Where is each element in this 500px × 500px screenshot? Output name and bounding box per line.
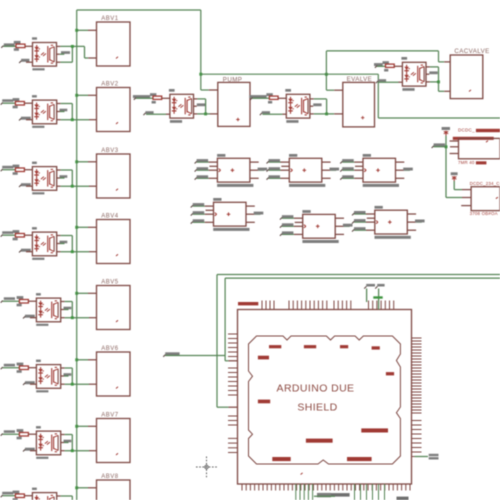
wire [24, 234, 32, 236]
resistor (ABV2 series) [13, 98, 25, 108]
junction (bus tap) [75, 94, 78, 97]
net label (ABV8 control) [1, 492, 16, 497]
wire [65, 368, 97, 384]
pad bar 4 (shield) [372, 346, 380, 349]
wire [162, 97, 170, 99]
wire (to EVALVE pin 1) [326, 89, 342, 91]
pin wires (opto outputs) [61, 368, 72, 384]
junction [437, 80, 440, 83]
pin wire (J3 left 4) [340, 175, 363, 179]
pin wire (J2 left 2) [281, 165, 289, 167]
pin wire (J6 left 3) [352, 219, 375, 223]
net label (ABV3 drive low side) [19, 183, 32, 187]
pin wire (J4 right 3) [246, 221, 255, 223]
wire [325, 51, 327, 90]
text ARDUINO DUE [277, 383, 355, 395]
junction [204, 112, 207, 115]
net label (ABV6 drive low side) [23, 381, 36, 385]
pad bar 2 (shield) [304, 345, 316, 348]
net label (ABV7 control) [1, 430, 20, 435]
pin wire (J6 left 1) [352, 211, 375, 215]
net label (ABV5 control) [1, 297, 20, 302]
wire [454, 181, 471, 190]
pin wire (J6 right 1) [407, 213, 416, 215]
wire [445, 136, 447, 198]
resistor (CACVALVE series) [383, 61, 395, 71]
wire [61, 236, 97, 252]
optocoupler (ABV5 driver) [36, 293, 61, 326]
wire [24, 169, 32, 171]
wire [77, 292, 97, 294]
pin wire (DCDC2 left 3) [461, 205, 471, 207]
junction (bus tap) [75, 226, 78, 229]
svg-text:7MR 40: 7MR 40 [458, 160, 475, 165]
pad bar 1 (shield) [269, 345, 281, 348]
wire [61, 104, 97, 120]
junction (bus tap) [75, 29, 78, 32]
pin wire (J1 right 2) [250, 168, 267, 171]
connector block J3 [363, 154, 399, 187]
net label (shield right stub) [412, 454, 439, 460]
wire [326, 50, 438, 52]
pin wires (opto outputs) [57, 170, 68, 186]
junction [199, 73, 202, 76]
shield inner footprint outline [249, 336, 401, 464]
wire (to PUMP pin 2) [206, 113, 218, 115]
wire [225, 278, 237, 361]
pin wire (J6 left 2) [367, 217, 375, 219]
pin wire (J3 right 1) [396, 161, 405, 163]
connector block J4 [213, 198, 249, 231]
junction [71, 185, 74, 188]
optocoupler (ABV7 driver) [36, 426, 61, 459]
wire [65, 435, 97, 451]
origin crosshair [196, 457, 217, 478]
converter DCDC1 [453, 128, 500, 166]
pad bar 5 (shield) [258, 356, 269, 360]
pin wires (shield bottom) [242, 484, 410, 491]
wire [439, 51, 451, 62]
pad bar 3 (shield) [340, 345, 348, 348]
net label (CACVALVE control) [374, 63, 386, 68]
optocoupler (ABV1 driver) [32, 37, 57, 70]
net label (ABV2 control) [1, 99, 16, 104]
pin wires (opto outputs) [426, 67, 438, 82]
net label (shield top stub A) [364, 284, 375, 302]
net label (ABV1 drive low side) [19, 59, 32, 63]
svg-text:DCDC_234_CC: DCDC_234_CC [470, 181, 500, 186]
wire [24, 495, 32, 497]
pin wire (J2 left 4) [267, 175, 290, 179]
pin wire (J1 right 1) [250, 161, 259, 163]
wires (shield bottom nets B) [355, 484, 385, 500]
valve block ABV3 [97, 148, 131, 198]
pin wires (opto outputs) [57, 496, 68, 500]
pin wires (shield left) [228, 334, 238, 453]
pin wire (J5 left 3) [280, 223, 303, 227]
junction [71, 383, 74, 386]
wire (to EVALVE pin 2) [327, 113, 343, 115]
pin wire (J6 right 2) [407, 220, 424, 223]
supply symbol (+V for DCDC2) [451, 172, 458, 181]
wire [61, 170, 97, 186]
resistor (PUMP series) [150, 93, 162, 103]
svg-text:ABV3: ABV3 [101, 148, 119, 154]
bar (top-left pad) [238, 302, 258, 305]
valve block ABV7 [97, 412, 131, 462]
pin wire (J3 right 2) [396, 168, 413, 171]
pin wire (J5 right 3) [335, 233, 344, 235]
junction [71, 250, 74, 253]
valve block ABV1 [97, 16, 131, 66]
pin wire (J5 left 4) [280, 231, 303, 235]
wire (left vertical bus) [76, 10, 78, 500]
optocoupler (ABV3 driver) [32, 162, 57, 195]
wire [217, 275, 238, 408]
net label (CACVALVE drive low side) [376, 79, 403, 83]
pad bar 6 (shield) [386, 372, 394, 375]
svg-text:DCDC_: DCDC_ [458, 128, 475, 133]
junction [71, 118, 74, 121]
pin wire (J2 right 1) [322, 161, 331, 163]
net label (ABV1 control) [1, 43, 16, 47]
wire (inner rail to shield) [225, 277, 500, 279]
connector block J5 [302, 210, 338, 243]
optocoupler (ABV6 driver) [36, 360, 61, 393]
valve block EVALVE [343, 76, 375, 127]
optocoupler (CACVALVE driver) [401, 57, 426, 91]
svg-text:ABV6: ABV6 [101, 346, 119, 352]
svg-text:SHIELD: SHIELD [297, 402, 337, 414]
junction [71, 449, 74, 452]
wire [85, 46, 97, 58]
wire [377, 74, 379, 118]
pin wires (shield top) [262, 301, 394, 310]
optocoupler (ABV8 driver) [32, 488, 57, 500]
net label (ABV6 control) [1, 364, 20, 369]
wire [201, 73, 378, 75]
junction (bus tap) [75, 292, 78, 295]
pin wires (opto outputs) [194, 99, 206, 114]
resistor (ABV6 series) [17, 363, 29, 373]
svg-text:ABV7: ABV7 [101, 412, 119, 418]
pin wire (J4 left 2) [206, 209, 214, 211]
pin wire (J4 right 2) [246, 212, 263, 215]
net label (shield top stub B) [375, 284, 384, 310]
net label (ABV2 drive low side) [19, 117, 32, 121]
wire (top rail) [77, 9, 201, 11]
junction [325, 73, 328, 76]
valve block ABV5 [97, 279, 131, 329]
svg-text:ABV4: ABV4 [101, 213, 119, 219]
wire [77, 226, 97, 228]
svg-text:EVALVE: EVALVE [347, 76, 373, 83]
pad bar 7 (shield) [258, 400, 270, 404]
net label (+24V rail) [432, 143, 446, 148]
wire [430, 67, 439, 82]
wire (to CACVALVE pin 2) [439, 82, 451, 91]
resistor (ABV1 series) [14, 41, 25, 51]
optocoupler (ABV4 driver) [32, 227, 57, 260]
pin wire (J6 left 4) [352, 227, 375, 231]
svg-text:CACVALVE: CACVALVE [454, 48, 489, 55]
wires (shield bottom nets A) [296, 484, 313, 500]
pin wire (J2 right 2) [322, 168, 339, 171]
junction [71, 45, 74, 48]
pin wires (shield right, dense) [412, 338, 422, 413]
resistor (ABV7 series) [17, 429, 29, 439]
pin wire (J1 left 1) [195, 159, 218, 163]
pin wire (J3 left 2) [355, 165, 363, 167]
pin wires (opto outputs) [310, 99, 322, 114]
net label (ABV7 drive low side) [23, 448, 36, 452]
pin wire (J5 left 1) [280, 215, 303, 219]
resistor (EVALVE series) [266, 93, 278, 103]
pin wire (J2 left 1) [267, 159, 290, 163]
wire [394, 65, 402, 67]
wire [24, 102, 32, 104]
pin wires (opto outputs) [57, 104, 68, 120]
net label (ABV4 control) [1, 231, 16, 236]
marker (shield origin) [301, 473, 303, 475]
wire [77, 487, 97, 489]
pin wires (opto outputs) [57, 236, 68, 252]
wire [65, 302, 97, 318]
valve block PUMP [218, 76, 250, 126]
valve block ABV2 [97, 81, 131, 131]
pin wire (J3 left 3) [340, 167, 363, 171]
resistor (ABV8 series) [13, 491, 25, 500]
pin wires (opto outputs) [57, 46, 71, 62]
svg-text:ABV5: ABV5 [101, 279, 119, 285]
wire [446, 197, 471, 199]
pin wire (J1 left 3) [195, 167, 218, 171]
junction (bus tap) [75, 486, 78, 489]
wire [378, 117, 500, 119]
svg-text:3708 OB#OA: 3708 OB#OA [470, 211, 498, 216]
wire [77, 425, 97, 427]
optocoupler (ABV2 driver) [32, 95, 57, 128]
resistor (ABV4 series) [13, 230, 25, 240]
resistor (ABV3 series) [13, 165, 25, 175]
net label (shield bottom A) [314, 493, 350, 497]
pin wire (J2 left 3) [267, 167, 290, 171]
connector block J2 [289, 154, 325, 187]
wire [77, 29, 97, 31]
junction [445, 145, 448, 148]
valve block ABV6 [97, 346, 131, 396]
pin wire (J1 left 2) [209, 165, 217, 167]
svg-text:PUMP: PUMP [223, 76, 242, 83]
wire [61, 496, 97, 500]
supply bar (shield top) [373, 296, 382, 298]
svg-text:ABV1: ABV1 [101, 16, 119, 22]
valve block ABV8 [97, 474, 131, 500]
pad bar 11 (shield) [347, 457, 372, 461]
pin wire (J4 left 3) [191, 211, 214, 215]
wire [197, 99, 205, 114]
junction [71, 316, 74, 319]
pin wire (J5 right 2) [335, 224, 352, 227]
connector block J1 [217, 154, 253, 187]
net label (EVALVE control) [249, 95, 269, 100]
pad bar 10 (shield) [272, 457, 290, 461]
wire (to PUMP pin 1) [201, 89, 218, 91]
pin wires (opto outputs) [61, 302, 72, 318]
junction (bus tap) [75, 425, 78, 428]
junction [325, 112, 328, 115]
pin wire (J4 left 1) [191, 203, 214, 207]
net label (shield bottom B) [397, 497, 409, 500]
wire (outer rail to shield) [217, 274, 500, 276]
pin wire (J5 right 1) [335, 217, 344, 219]
pin wires (opto outputs) [61, 435, 72, 451]
net label (PUMP control) [133, 95, 153, 100]
net label (ABV3 control) [1, 166, 16, 171]
wire [28, 300, 36, 302]
wire [25, 45, 33, 47]
supply symbol (+V for DCDC1) [442, 127, 450, 136]
connector block J6 [375, 206, 411, 239]
wire [77, 161, 97, 163]
pin wire (J2 right 3) [322, 177, 331, 179]
pin wire (J5 left 2) [295, 221, 303, 223]
wire [200, 10, 202, 90]
shield module ARDUINO DUE SHIELD (outer outline) [238, 310, 412, 485]
pin wire (J4 right 1) [246, 205, 255, 207]
pin wire (J6 right 3) [407, 229, 416, 231]
svg-text:ABV8: ABV8 [101, 474, 119, 480]
valve block ABV4 [97, 213, 131, 263]
wire [77, 359, 97, 361]
junction (bus tap) [75, 358, 78, 361]
net label (shield input) [163, 352, 225, 357]
wire [278, 97, 286, 99]
pin wire (J1 left 4) [195, 175, 218, 179]
pin wire (J3 left 1) [340, 159, 363, 163]
wire [77, 94, 97, 96]
pin wire (J3 right 3) [396, 177, 405, 179]
net label (ABV5 drive low side) [23, 315, 36, 319]
svg-text:ABV2: ABV2 [101, 81, 119, 87]
pin wires (shield right, lower) [412, 421, 422, 453]
net label (PUMP drive low side) [143, 111, 170, 115]
wire [28, 433, 36, 435]
text SHIELD [297, 402, 337, 414]
pad bar 9 (shield) [306, 439, 333, 443]
wire [28, 367, 36, 369]
pad bar 8 (shield) [361, 428, 388, 432]
pin wire (J1 right 3) [250, 177, 259, 179]
junction (bus tap) [75, 160, 78, 163]
wire [60, 46, 84, 62]
converter DCDC2 [470, 181, 500, 216]
pin wire (J4 left 4) [191, 219, 214, 223]
net label (EVALVE drive low side) [260, 111, 287, 115]
net label (ABV4 drive low side) [19, 249, 32, 253]
resistor (ABV5 series) [17, 296, 29, 306]
wire [314, 99, 327, 114]
svg-text:ARDUINO DUE: ARDUINO DUE [277, 383, 355, 395]
pin wires (DCDC1 left) [450, 141, 459, 154]
valve block CACVALVE [450, 48, 489, 99]
optocoupler (PUMP driver) [169, 89, 194, 123]
optocoupler (EVALVE driver) [285, 89, 310, 123]
